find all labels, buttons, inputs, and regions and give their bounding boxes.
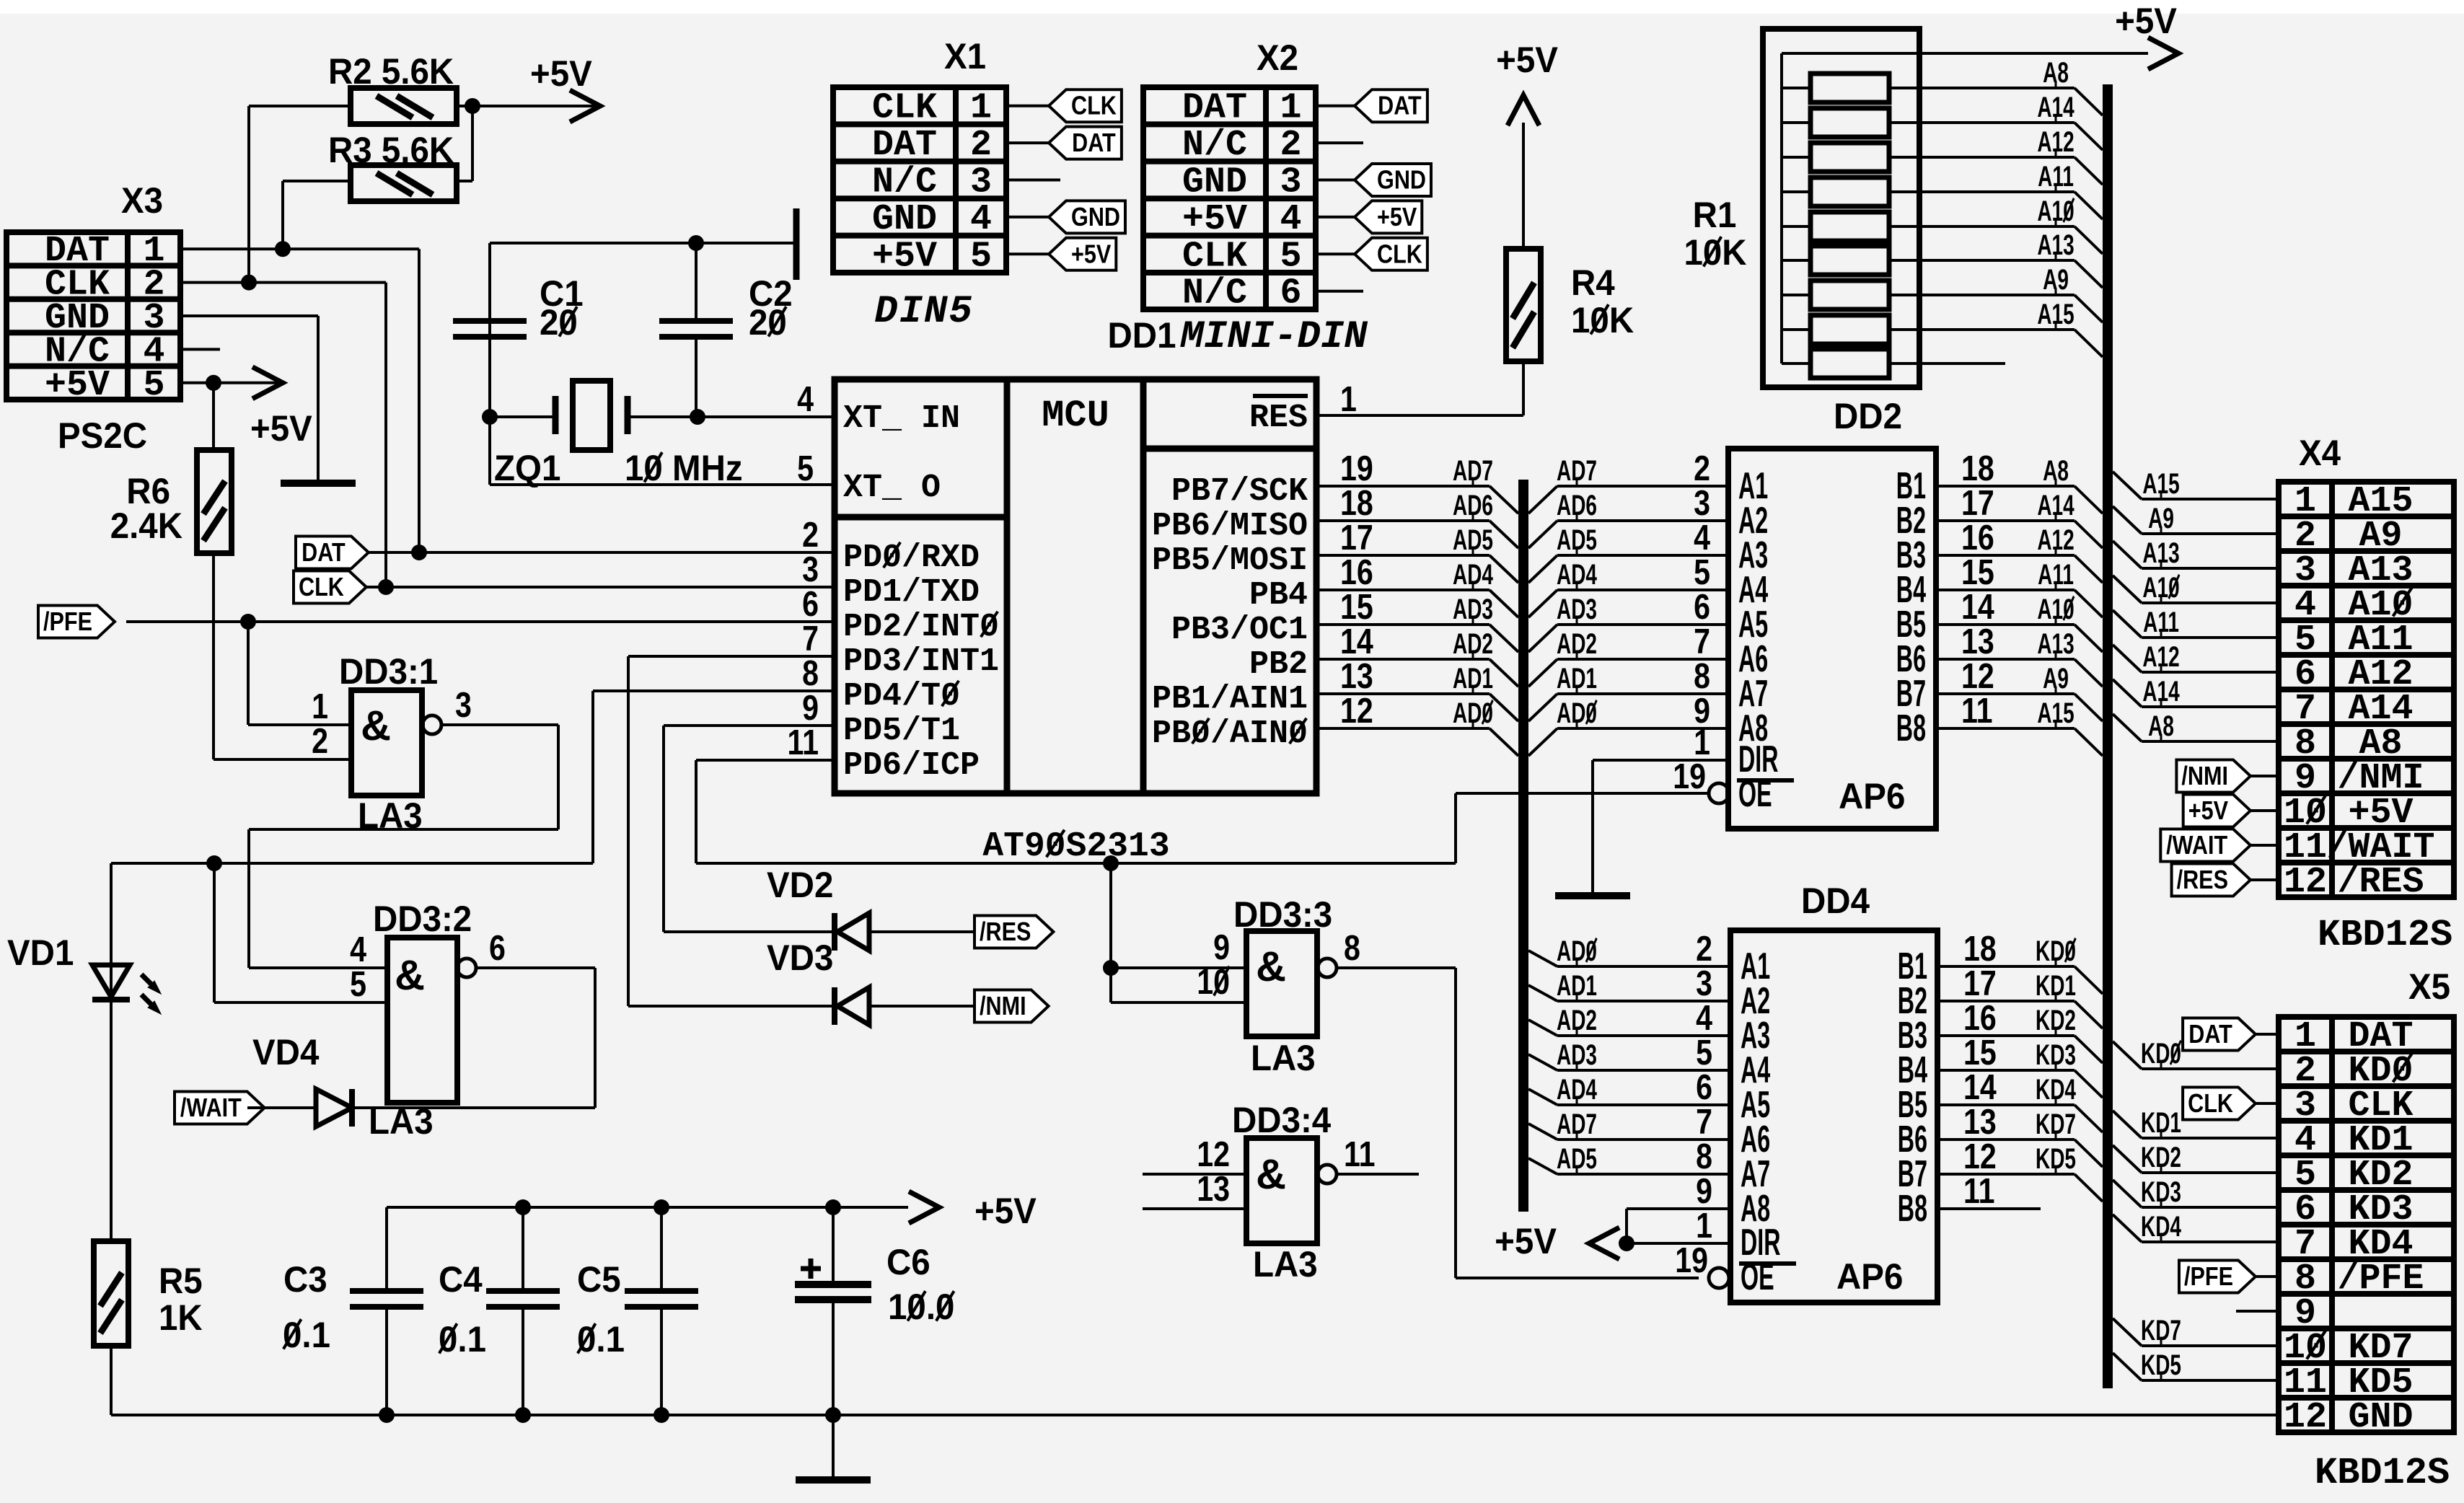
svg-text:12: 12 xyxy=(2284,862,2327,903)
capacitor C5 0.1 xyxy=(577,1207,698,1415)
buffer DD4 (AP6 bottom) xyxy=(1675,881,1997,1303)
tag DAT at X2 pin1 xyxy=(1316,89,1427,122)
gate DD3:3 (LA3) xyxy=(1197,895,1360,1078)
svg-text:8: 8 xyxy=(1694,656,1710,696)
bus AD (thick vertical) xyxy=(1518,480,1528,1212)
svg-text:19: 19 xyxy=(1675,1240,1708,1280)
svg-text:4: 4 xyxy=(1696,998,1712,1038)
wire DD4 B8 stub xyxy=(1937,1207,2041,1210)
crystal ZQ1 10 MHz xyxy=(494,381,743,488)
capacitor C3 0.1 xyxy=(283,1207,423,1415)
svg-text:N/C: N/C xyxy=(872,162,937,203)
svg-text:DD3:4: DD3:4 xyxy=(1232,1101,1331,1140)
svg-text:19: 19 xyxy=(1340,449,1373,488)
svg-text:6: 6 xyxy=(1280,273,1301,314)
wire DD3:3 output to DD4 OE xyxy=(1337,968,1699,1278)
connector X1 (DIN5) xyxy=(833,37,1006,334)
tag CLK (left) xyxy=(294,571,366,604)
wire C1/C2 top net with end bar xyxy=(490,208,796,321)
wires AP6 B to right bus (A8..A15) xyxy=(1936,455,2103,756)
diode VD3 (/RES) xyxy=(767,865,974,978)
svg-text:MINI-DIN: MINI-DIN xyxy=(1179,315,1368,359)
svg-text:X2: X2 xyxy=(1257,38,1298,78)
power +5V rail (top of capacitor bank) xyxy=(387,1191,1037,1231)
svg-text:+5V: +5V xyxy=(2188,797,2229,826)
svg-text:DD2: DD2 xyxy=(1834,397,1902,436)
svg-text:3: 3 xyxy=(802,550,819,589)
svg-text:LA3: LA3 xyxy=(1251,1039,1316,1078)
wire PD4 net (VD1 - MCU PD4 - DD3:2 pin5) xyxy=(111,691,835,1002)
svg-text:X3: X3 xyxy=(121,181,163,221)
svg-text:XT_ O: XT_ O xyxy=(843,470,941,506)
svg-text:DD3:3: DD3:3 xyxy=(1233,895,1332,935)
connector X2 (MINI-DIN) xyxy=(1143,38,1368,359)
diode VD2 (/NMI) xyxy=(835,987,974,1025)
svg-text:2: 2 xyxy=(1694,449,1710,488)
svg-text:R5: R5 xyxy=(159,1261,203,1301)
svg-text:13: 13 xyxy=(1340,656,1373,696)
svg-text:X5: X5 xyxy=(2408,967,2450,1007)
svg-text:7: 7 xyxy=(802,619,819,658)
resistor R2 5.6K xyxy=(328,52,457,124)
svg-text:+5V: +5V xyxy=(1377,203,1417,232)
svg-text:2: 2 xyxy=(802,515,819,555)
ground symbol at C6 xyxy=(796,1415,871,1480)
svg-text:GND: GND xyxy=(1377,166,1426,195)
svg-text:17: 17 xyxy=(1961,483,1994,523)
tag /PFE at X5 pin8 xyxy=(2179,1261,2279,1293)
svg-text:/RES: /RES xyxy=(980,918,1031,947)
svg-text:17: 17 xyxy=(1963,964,1997,1003)
svg-text:17: 17 xyxy=(1340,518,1373,557)
svg-text:12: 12 xyxy=(1963,1137,1997,1176)
diode VD4 xyxy=(247,1033,352,1127)
svg-text:OE: OE xyxy=(1738,773,1772,815)
svg-text:XT_ IN: XT_ IN xyxy=(843,400,960,437)
svg-text:4: 4 xyxy=(797,379,814,419)
svg-text:+5V: +5V xyxy=(1496,40,1558,80)
svg-text:4: 4 xyxy=(1694,518,1710,557)
svg-text:PD0/RXD: PD0/RXD xyxy=(843,539,980,576)
svg-text:C6: C6 xyxy=(886,1243,930,1282)
svg-text:C5: C5 xyxy=(577,1260,621,1300)
svg-text:8: 8 xyxy=(802,653,819,693)
svg-text:VD3: VD3 xyxy=(767,938,833,978)
wire X5 pin9 stub xyxy=(2236,1310,2279,1313)
svg-text:DIN5: DIN5 xyxy=(874,290,974,334)
svg-text:3: 3 xyxy=(1280,162,1301,203)
svg-text:X1: X1 xyxy=(944,37,986,76)
svg-text:/WAIT: /WAIT xyxy=(2166,832,2227,860)
svg-text:6: 6 xyxy=(489,928,506,968)
svg-text:PD2/INT0: PD2/INT0 xyxy=(843,609,999,645)
svg-text:GND: GND xyxy=(1182,162,1247,203)
svg-text:ZQ1: ZQ1 xyxy=(494,449,560,488)
svg-text:15: 15 xyxy=(1340,587,1373,627)
svg-text:DAT: DAT xyxy=(872,125,937,166)
svg-text:PD4/T0: PD4/T0 xyxy=(843,678,960,715)
bus A/KD right (thick vertical) xyxy=(2103,84,2113,1388)
svg-text:7: 7 xyxy=(1694,622,1710,661)
svg-text:4: 4 xyxy=(350,930,366,969)
svg-text:10K: 10K xyxy=(1571,301,1634,340)
svg-text:LA3: LA3 xyxy=(1253,1245,1318,1284)
tag DAT at X5 pin1 xyxy=(2183,1018,2279,1051)
svg-text:1: 1 xyxy=(1696,1206,1712,1246)
svg-text:2.4K: 2.4K xyxy=(110,506,182,546)
svg-text:16: 16 xyxy=(1961,518,1994,557)
tag CLK at X5 pin3 xyxy=(2183,1088,2279,1120)
wire DD3:4 input stubs xyxy=(1143,1174,1246,1209)
svg-text:12: 12 xyxy=(1197,1134,1230,1174)
svg-text:CLK: CLK xyxy=(1071,92,1117,120)
svg-text:+5V: +5V xyxy=(530,54,592,94)
svg-text:AT90S2313: AT90S2313 xyxy=(982,827,1169,866)
tag DAT at X1 pin2 xyxy=(1006,127,1122,159)
svg-text:PB3/OC1: PB3/OC1 xyxy=(1171,612,1308,648)
svg-text:5: 5 xyxy=(797,449,814,488)
svg-text:PS2C: PS2C xyxy=(58,416,147,456)
svg-text:/PFE: /PFE xyxy=(43,608,92,637)
svg-text:PB0/AIN0: PB0/AIN0 xyxy=(1152,715,1308,752)
svg-text:3: 3 xyxy=(455,685,472,725)
svg-text:&: & xyxy=(361,702,391,749)
svg-text:CLK: CLK xyxy=(872,88,937,129)
svg-text:R4: R4 xyxy=(1571,263,1615,303)
svg-text:PD3/INT1: PD3/INT1 xyxy=(843,643,999,680)
svg-text:20: 20 xyxy=(540,303,578,343)
svg-text:5: 5 xyxy=(1694,552,1710,592)
wire PD3 net (MCU PD3 to VD2) xyxy=(628,656,835,1006)
svg-text:6: 6 xyxy=(802,584,819,624)
svg-text:VD1: VD1 xyxy=(7,933,74,973)
capacitor C2 20 xyxy=(659,274,793,343)
svg-text:B8: B8 xyxy=(1896,708,1926,749)
svg-text:/WAIT: /WAIT xyxy=(180,1094,242,1123)
power +5V at X3 pin5 xyxy=(180,367,312,449)
svg-text:AP6: AP6 xyxy=(1839,777,1905,816)
svg-text:5: 5 xyxy=(350,964,366,1004)
svg-text:B8: B8 xyxy=(1898,1188,1927,1230)
svg-text:11: 11 xyxy=(1963,1171,1995,1211)
wire /PFE net (to MCU PD2 and DD3:1 pin1) xyxy=(126,614,835,725)
svg-text:CLK: CLK xyxy=(2188,1090,2233,1119)
svg-text:/RES: /RES xyxy=(2177,866,2228,895)
svg-text:13: 13 xyxy=(1963,1102,1997,1142)
svg-text:2: 2 xyxy=(1696,929,1712,969)
svg-text:/PFE: /PFE xyxy=(2184,1263,2233,1292)
svg-text:+5V: +5V xyxy=(45,365,110,406)
svg-text:+5V: +5V xyxy=(872,236,937,277)
gate DD3:2 (LA3) xyxy=(350,899,506,1142)
connector X5 (KBD12S) xyxy=(2279,967,2454,1494)
svg-text:9: 9 xyxy=(1696,1171,1712,1211)
wire DD3:2 output via VD4 to /WAIT xyxy=(352,968,595,1108)
svg-text:GND: GND xyxy=(872,199,937,240)
capacitor C6 10.0 (electrolytic) xyxy=(795,1207,954,1415)
svg-text:13: 13 xyxy=(1961,622,1994,661)
svg-text:DD1: DD1 xyxy=(1108,316,1176,356)
svg-text:5: 5 xyxy=(143,365,164,406)
wire DD2 9th resistor stub xyxy=(1919,362,2005,365)
svg-text:DAT: DAT xyxy=(1182,88,1247,129)
svg-text:/PFE: /PFE xyxy=(2337,1259,2424,1300)
svg-text:C4: C4 xyxy=(439,1260,483,1300)
wires AD bus to DD4 (AD0..AD5) xyxy=(1528,935,1730,1175)
tag GND at X2 pin3 xyxy=(1316,164,1431,196)
connector X4 (KBD12S) xyxy=(2279,433,2454,956)
svg-text:11: 11 xyxy=(1961,691,1993,731)
svg-text:1: 1 xyxy=(1340,379,1357,419)
power +5V at R4 xyxy=(1496,40,1558,249)
svg-text:CLK: CLK xyxy=(299,573,344,602)
svg-text:DAT: DAT xyxy=(302,539,346,568)
svg-text:&: & xyxy=(395,952,425,999)
tag /WAIT at X4 pin11 xyxy=(2160,829,2279,862)
wire X1 pin3 N/C stub xyxy=(1006,179,1060,182)
tag /RES at X4 pin12 xyxy=(2172,864,2279,896)
svg-text:OE: OE xyxy=(1741,1256,1774,1298)
tag +5V at X1 pin5 xyxy=(1006,238,1116,270)
svg-text:KBD12S: KBD12S xyxy=(2318,914,2452,956)
svg-text:R1: R1 xyxy=(1693,195,1737,235)
svg-text:PB5/MOSI: PB5/MOSI xyxy=(1152,542,1308,579)
MCU DD1 AT90S2313 xyxy=(787,316,1373,866)
tag CLK at X2 pin5 xyxy=(1316,238,1427,270)
tag /WAIT xyxy=(175,1092,265,1124)
tag DAT (left) xyxy=(296,537,369,569)
svg-text:18: 18 xyxy=(1340,483,1373,523)
svg-text:3: 3 xyxy=(1694,483,1710,523)
svg-text:PD6/ICP: PD6/ICP xyxy=(843,747,980,784)
gate DD3:4 (LA3) xyxy=(1197,1101,1375,1284)
svg-text:16: 16 xyxy=(1340,552,1373,592)
svg-text:+5V: +5V xyxy=(1182,199,1247,240)
svg-text:&: & xyxy=(1256,1151,1286,1198)
svg-text:3: 3 xyxy=(970,162,992,203)
svg-text:DD3:1: DD3:1 xyxy=(339,652,438,692)
svg-text:KBD12S: KBD12S xyxy=(2315,1452,2450,1494)
svg-text:&: & xyxy=(1256,943,1286,990)
svg-text:+5V: +5V xyxy=(1495,1222,1557,1261)
svg-text:12: 12 xyxy=(1961,656,1994,696)
svg-text:+5V: +5V xyxy=(974,1191,1037,1231)
wire PD5 net (MCU PD5 to VD3) xyxy=(664,726,835,932)
svg-text:1: 1 xyxy=(970,88,992,129)
svg-text:16: 16 xyxy=(1963,998,1997,1038)
svg-text:4: 4 xyxy=(1280,199,1301,240)
svg-text:DAT: DAT xyxy=(2188,1021,2232,1049)
svg-text:19: 19 xyxy=(1673,757,1706,796)
svg-text:VD2: VD2 xyxy=(767,865,833,905)
capacitor C1 20 xyxy=(453,274,584,343)
wire X3 pin4 N/C stub xyxy=(180,348,220,351)
wire X2 pin2 N/C stub xyxy=(1316,141,1363,144)
svg-text:6: 6 xyxy=(1696,1067,1712,1107)
svg-text:/NMI: /NMI xyxy=(2181,762,2228,791)
svg-text:DD3:2: DD3:2 xyxy=(373,899,472,939)
svg-text:6: 6 xyxy=(1694,587,1710,627)
svg-text:PB4: PB4 xyxy=(1249,577,1308,614)
svg-text:9: 9 xyxy=(1213,927,1230,967)
svg-text:20: 20 xyxy=(749,303,787,343)
svg-text:1K: 1K xyxy=(159,1298,203,1338)
wire X2 pin6 N/C stub xyxy=(1316,290,1363,293)
wire XT_IN net xyxy=(482,321,835,425)
svg-text:+5V: +5V xyxy=(250,409,312,449)
wire AP6 DIR to ground xyxy=(1593,760,1728,893)
resistor R4 10K xyxy=(1506,249,1634,361)
tag /PFE xyxy=(38,606,115,638)
svg-text:PD5/T1: PD5/T1 xyxy=(843,713,960,749)
tag /RES xyxy=(974,916,1053,948)
wires DD4 B to right bus (KD0..KD5) xyxy=(1937,935,2103,1202)
svg-text:/RES: /RES xyxy=(2337,862,2424,903)
svg-text:7: 7 xyxy=(1696,1102,1712,1142)
svg-text:+5V: +5V xyxy=(2115,1,2177,41)
wire XT_O net xyxy=(490,417,835,485)
resistor R6 2.4K xyxy=(110,383,232,553)
wires right bus to X4 (A15..A8) xyxy=(2113,468,2279,742)
svg-text:PB7/SCK: PB7/SCK xyxy=(1171,473,1308,510)
svg-text:10: 10 xyxy=(1197,962,1230,1002)
svg-text:18: 18 xyxy=(1963,929,1997,969)
svg-text:1: 1 xyxy=(1280,88,1301,129)
svg-text:14: 14 xyxy=(1963,1067,1997,1107)
buffer AP6 (top) xyxy=(1673,449,1994,829)
svg-text:AP6: AP6 xyxy=(1836,1257,1903,1297)
svg-text:5: 5 xyxy=(1696,1033,1712,1072)
svg-text:DAT: DAT xyxy=(1072,129,1116,158)
ground symbol at AP6 DIR xyxy=(1555,892,1630,899)
svg-text:11: 11 xyxy=(787,723,819,762)
wire PD6 net (MCU PD6 - DD3:3 in - AP6 OE) xyxy=(696,760,1709,1002)
svg-text:15: 15 xyxy=(1963,1033,1997,1072)
svg-text:10K: 10K xyxy=(1684,233,1746,273)
tag +5V at X4 pin10 xyxy=(2183,795,2279,827)
svg-text:8: 8 xyxy=(1696,1137,1712,1176)
svg-text:RES: RES xyxy=(1249,400,1308,436)
svg-text:PB2: PB2 xyxy=(1249,646,1308,683)
resistor R5 1K xyxy=(94,1241,203,1346)
wire RES net (R4 to MCU pin1) xyxy=(1316,361,1523,415)
svg-text:MCU: MCU xyxy=(1042,395,1109,437)
svg-text:CLK: CLK xyxy=(1182,236,1247,277)
power +5V at R2/R3 xyxy=(457,54,600,181)
wire ground rail bottom xyxy=(111,1407,2279,1423)
wires DD2 to right bus (A8..A15) xyxy=(1919,57,2103,357)
tag +5V at X2 pin4 xyxy=(1316,200,1422,233)
svg-text:14: 14 xyxy=(1340,622,1373,661)
svg-text:PB1/AIN1: PB1/AIN1 xyxy=(1152,681,1308,718)
tag /NMI at X4 pin9 xyxy=(2176,760,2279,793)
power +5V at DD2 xyxy=(1919,1,2178,69)
svg-text:2: 2 xyxy=(312,721,328,761)
svg-text:2: 2 xyxy=(970,125,992,166)
wire R5 to ground rail xyxy=(110,1346,113,1415)
svg-text:VD4: VD4 xyxy=(252,1033,319,1072)
svg-text:15: 15 xyxy=(1961,552,1994,592)
svg-text:14: 14 xyxy=(1961,587,1994,627)
svg-text:18: 18 xyxy=(1961,449,1994,488)
svg-text:X4: X4 xyxy=(2299,433,2341,473)
svg-text:4: 4 xyxy=(970,199,992,240)
resistor R3 5.6K xyxy=(328,131,457,201)
wires right bus to X5 (KD0..KD5) xyxy=(2113,1038,2279,1381)
svg-text:11: 11 xyxy=(1344,1134,1376,1174)
svg-text:CLK: CLK xyxy=(1377,240,1422,269)
svg-text:R2 5.6K: R2 5.6K xyxy=(328,52,454,92)
svg-text:PB6/MISO: PB6/MISO xyxy=(1152,508,1308,545)
svg-text:12: 12 xyxy=(2284,1397,2327,1438)
svg-text:DD4: DD4 xyxy=(1801,881,1870,921)
svg-text:5: 5 xyxy=(970,236,992,277)
svg-text:12: 12 xyxy=(1340,691,1373,731)
svg-text:1: 1 xyxy=(312,687,328,726)
power +5V at DD4 DIR/A8 xyxy=(1495,1209,1730,1261)
tag GND at X1 pin4 xyxy=(1006,200,1125,233)
svg-text:N/C: N/C xyxy=(1182,273,1247,314)
gate DD3:1 (LA3) xyxy=(312,652,472,836)
svg-text:GND: GND xyxy=(2348,1397,2413,1438)
svg-text:DAT: DAT xyxy=(1378,92,1422,120)
wire DAT net xyxy=(180,181,835,560)
svg-text:/NMI: /NMI xyxy=(980,992,1026,1021)
wire DD3:4 output stub xyxy=(1337,1173,1419,1176)
wires MCU PB to AD bus (AD7-AD0) xyxy=(1316,455,1518,756)
svg-text:8: 8 xyxy=(1344,928,1360,968)
svg-text:5: 5 xyxy=(1280,236,1301,277)
svg-text:PD1/TXD: PD1/TXD xyxy=(843,574,980,611)
svg-text:C3: C3 xyxy=(283,1260,327,1300)
LED VD1 xyxy=(7,863,160,1241)
capacitor C4 0.1 xyxy=(439,1207,560,1415)
svg-text:+5V: +5V xyxy=(1071,240,1112,269)
wires AD bus to AP6 (AD7-AD0) xyxy=(1528,455,1728,756)
wire DD3:1 output to DD3:2 pin4 xyxy=(249,725,558,968)
tag CLK at X1 pin1 xyxy=(1006,89,1122,122)
svg-text:2: 2 xyxy=(1280,125,1301,166)
tag /NMI xyxy=(974,990,1049,1023)
svg-text:3: 3 xyxy=(1696,964,1712,1003)
svg-text:GND: GND xyxy=(1071,203,1120,232)
connector X3 (PS2C) xyxy=(6,181,180,456)
svg-text:10 MHz: 10 MHz xyxy=(625,449,743,488)
svg-text:9: 9 xyxy=(802,688,819,728)
wire R6 to DD3:1 pin2 xyxy=(214,553,351,759)
svg-text:R3 5.6K: R3 5.6K xyxy=(328,131,454,170)
svg-text:N/C: N/C xyxy=(1182,125,1247,166)
ground symbol near X3 xyxy=(281,480,356,487)
wire X3 GND to ground xyxy=(180,316,318,483)
resistor network DD2 R1 10K xyxy=(1684,29,1919,436)
wire CLK net xyxy=(180,106,835,595)
